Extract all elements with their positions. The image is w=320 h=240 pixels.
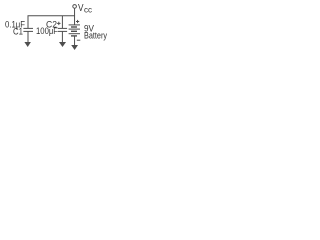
wire top rail from C1 up-and-over to Vcc/battery junction: [28, 16, 75, 28]
svg-text:100μF: 100μF: [36, 26, 58, 36]
Vcc terminal circle: [73, 5, 77, 9]
battery plus sign: [76, 20, 79, 23]
svg-text:Battery: Battery: [84, 31, 107, 41]
svg-text:cc: cc: [84, 5, 93, 15]
battery minus sign: [77, 39, 81, 41]
Vcc terminal stub: [74, 8, 76, 16]
capacitor C1: [23, 28, 33, 43]
ground arrow below C2: [59, 42, 66, 47]
ground arrow below C1: [24, 42, 31, 47]
wire C2 top lead: [61, 16, 63, 28]
svg-text:V: V: [78, 3, 84, 14]
ground arrow below battery: [71, 45, 78, 50]
capacitor C2: [58, 28, 67, 43]
battery BT1 plates: [69, 25, 80, 36]
label plus at C2: [57, 22, 60, 25]
svg-text:C1: C1: [13, 27, 23, 37]
wire battery bottom lead: [74, 36, 76, 46]
